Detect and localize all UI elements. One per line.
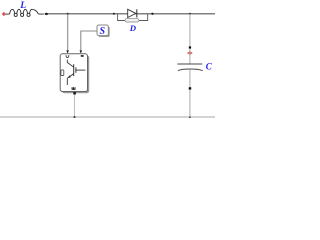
diode snubber loop wire: [118, 14, 148, 21]
diode right connection dot: [151, 13, 153, 15]
junction dot at capacitor branch: [189, 13, 191, 15]
wire top-left segment: [6, 13, 10, 15]
capacitor port square top: [189, 46, 191, 48]
small rect marker on block left edge: [61, 70, 64, 76]
wire top main segment: [48, 13, 216, 15]
arrowhead into switch block (gate): [80, 50, 83, 53]
IGBT gate line: [76, 69, 86, 71]
svg-text:D: D: [129, 23, 137, 33]
inductor L coil: [10, 9, 44, 16]
capacitor lead upper: [189, 49, 191, 64]
diode left connection dot: [113, 13, 115, 15]
capacitor branch wire upper: [189, 14, 191, 47]
arrowhead into switch block (collector): [66, 50, 69, 53]
svg-text:L: L: [19, 1, 26, 11]
port label C (rotated): [66, 56, 69, 58]
node junction dot at switch branch: [67, 13, 69, 15]
capacitor lead lower: [189, 69, 191, 87]
IGBT emitter lead: [66, 78, 68, 85]
diode cathode bar: [136, 9, 138, 17]
IGBT switch block body: [60, 54, 87, 92]
junction dot bottom left: [73, 116, 75, 118]
IGBT collector lead: [66, 60, 68, 63]
IGBT emitter arrow: [68, 75, 71, 78]
IGBT gate bar: [75, 67, 77, 73]
IGBT emitter diagonal: [67, 74, 73, 79]
IGBT channel bar: [73, 64, 75, 76]
port label E (rotated, tiny): [72, 87, 76, 89]
svg-text:S: S: [100, 26, 106, 37]
capacitor polarity + (red): [188, 51, 193, 56]
wire from block to bottom rail: [74, 95, 76, 118]
bottom rail wire: [0, 116, 215, 118]
wire drop to switch block: [67, 14, 69, 51]
diode D triangle: [128, 9, 136, 17]
input terminal + (red): [2, 12, 6, 16]
diode snubber resistor pill: [125, 19, 139, 22]
wire from gate label S: [81, 31, 97, 51]
IGBT collector diagonal: [67, 62, 73, 67]
svg-text:C: C: [206, 61, 213, 71]
gate signal box S shadow: [98, 26, 109, 37]
emitter port square: [73, 92, 76, 95]
capacitor port square bottom: [189, 87, 192, 89]
junction dot bottom right: [189, 116, 191, 118]
gate signal box S: [97, 25, 108, 36]
wire arrow after inductor: [45, 13, 49, 15]
capacitor branch wire lower: [189, 90, 191, 117]
capacitor curved plate: [178, 69, 203, 71]
capacitor top plate: [177, 63, 202, 65]
IGBT block shadow: [62, 56, 89, 94]
port label g (rotated, tiny blob): [81, 55, 84, 57]
